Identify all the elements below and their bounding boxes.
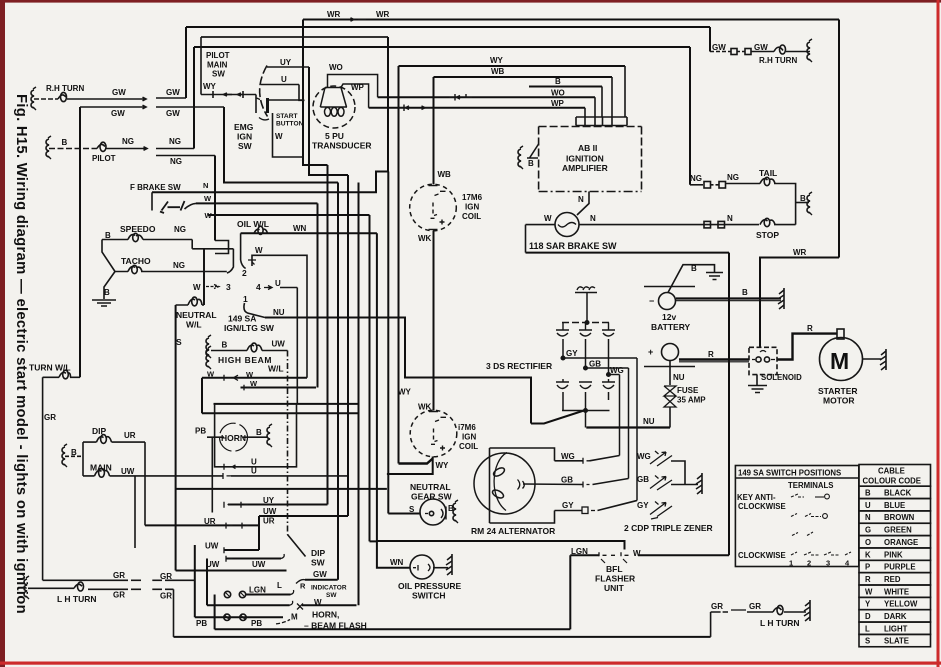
wire GW right segment row1 [156,97,186,99]
svg-text:FLASHER: FLASHER [595,574,635,584]
rectifier curl ground [575,287,597,293]
wire NU fuse bottom row [586,426,670,428]
wire NG to tail lamp [726,183,761,185]
switch position row3 [792,532,813,536]
svg-text:2 CDP TRIPLE ZENER: 2 CDP TRIPLE ZENER [624,523,713,533]
svg-text:PINK: PINK [884,550,903,559]
svg-text:HORN,: HORN, [312,610,339,620]
svg-text:O: O [865,538,871,547]
svg-text:WR: WR [376,10,390,19]
contacts UW row2 [224,547,231,553]
wire B to slash ground [778,288,784,309]
svg-text:NU: NU [673,373,685,382]
svg-text:BROWN: BROWN [884,513,915,522]
wire starter to ground [863,358,882,360]
solenoid bottom ground [756,375,758,385]
wire vertical x525.5 [525,225,527,253]
blade terminal 2 [241,260,246,269]
svg-text:B: B [691,264,697,273]
svg-text:5 PU: 5 PU [325,131,344,141]
wire vertical x194.8 PB [194,545,196,617]
svg-text:U: U [251,467,257,476]
wire vertical x259 UW step [258,516,260,550]
svg-text:GR: GR [160,572,172,581]
wire GB common to ground [671,484,698,486]
contact WG [583,458,590,464]
svg-text:D: D [865,612,871,621]
svg-text:WY: WY [398,388,412,397]
svg-text:NG: NG [690,174,702,183]
rectifier top bus [562,322,610,324]
svg-text:CLOCKWISE: CLOCKWISE [738,551,786,560]
lamp OIL W/L [254,229,268,233]
svg-text:OIL W/L: OIL W/L [237,219,269,229]
f brake sw frame [151,192,153,210]
wire vertical x637 GY [636,358,638,501]
connector pair N stop [704,221,711,228]
wire vertical x287.5 dip feed [287,351,289,535]
svg-text:PILOT: PILOT [92,154,116,163]
alternator bracket bottom [490,511,555,524]
dip sw blade [288,535,306,557]
wire WB y77 [434,76,613,78]
svg-text:GB: GB [561,476,573,485]
lamp MAIN [95,471,110,476]
wire GW dashed [710,51,731,53]
wire GR to lamp [747,611,773,613]
switch position row2 [791,514,821,517]
wire start row y100 [268,99,304,101]
wire solenoid to starter [777,334,837,360]
svg-text:RED: RED [884,575,901,584]
svg-text:+: + [648,347,653,357]
svg-text:GREEN: GREEN [884,526,912,535]
arc M horn flash [276,620,290,624]
wire row y248.8 [192,248,233,250]
wire vertical x338 bundle [337,183,339,580]
wire MAIN row [83,475,135,477]
wire UW row y516 [259,515,348,517]
wire WG to common [671,461,685,485]
coil1 internals [429,186,446,230]
alternator bracket left [489,448,491,523]
coil2 internals [429,412,446,451]
brake pressure switch circle [555,213,579,237]
wire PB row y617.3 [195,616,283,618]
svg-text:SPEEDO: SPEEDO [120,224,156,234]
battery minus circle [659,293,676,310]
ground oil pressure [446,554,452,575]
colour code rows text [865,489,918,646]
svg-text:COLOUR CODE: COLOUR CODE [863,477,921,486]
wire vertical x710.6 [710,612,712,637]
svg-text:G: G [865,526,871,535]
wire vertical x135 UW down [134,476,136,548]
svg-text:R.H TURN: R.H TURN [46,84,84,93]
svg-text:W: W [544,214,552,223]
blade terminal 1 [244,303,265,318]
svg-text:WG: WG [561,452,575,461]
wire vertical x358.5 bundle [358,183,360,606]
connector pair GW [731,49,737,55]
wire 118 SAR bottom bus [526,252,730,254]
wire W terminal 2 [252,255,307,377]
wire top bus y27 [186,26,710,28]
svg-text:N: N [578,195,584,204]
svg-text:UNIT: UNIT [604,583,625,593]
lamp TURN W/L [59,372,71,377]
wire dashed B to pilot lamp [49,148,97,150]
contacts PB circles [224,614,230,620]
B branch + ground [796,202,809,204]
svg-text:TURN W/L: TURN W/L [29,363,71,373]
wire neutral wl row [176,304,204,306]
svg-text:GR: GR [44,413,56,422]
lamp L H TURN right [773,608,782,612]
brake switch blade [160,201,185,213]
svg-text:WN: WN [293,224,307,233]
svg-text:WR: WR [327,10,341,19]
lamp LH TURN [74,584,82,588]
wire vertical x202 [201,378,203,414]
wire UY top corner [309,67,348,175]
rectifier cup row2 col2 [579,382,592,389]
svg-text:NU: NU [643,417,655,426]
svg-text:WK: WK [418,234,432,243]
svg-text:SW: SW [238,141,253,151]
wire vertical x204 to neutral lamp [203,249,205,305]
wire WO y97.3 [378,96,595,98]
wire GW indicator row [305,579,338,581]
svg-text:U: U [251,458,257,467]
rectifier column 3 [602,323,615,337]
zener blades GY [650,502,672,520]
svg-text:STOP: STOP [756,230,779,240]
wire GB out [586,367,629,369]
svg-text:GB: GB [637,475,649,484]
contacts U row upper [224,464,236,470]
wire vertical x42.6 [42,377,44,580]
svg-text:GW: GW [313,570,327,579]
svg-text:NU: NU [273,308,285,317]
svg-text:GR: GR [113,591,125,600]
svg-text:F BRAKE SW: F BRAKE SW [130,183,181,192]
svg-text:TRANSDUCER: TRANSDUCER [312,141,372,151]
wire turn wl row [43,376,80,378]
svg-text:B: B [105,231,111,240]
svg-text:AB II: AB II [578,143,597,153]
svg-text:UW: UW [272,340,286,349]
svg-text:WG: WG [637,452,651,461]
ground neutral gear [453,500,458,523]
colour table rows [859,486,931,498]
contacts W row1 [224,375,238,381]
svg-text:SW: SW [311,558,326,568]
svg-text:DIP: DIP [311,548,326,558]
diagonal GB [593,479,629,485]
starter motor circle [820,338,863,381]
svg-text:GY: GY [637,501,649,510]
svg-text:SWITCH: SWITCH [412,591,446,601]
svg-text:UW: UW [263,507,277,516]
ground for pilot lamp [46,136,51,159]
wire WG row [555,460,584,462]
svg-text:1: 1 [789,559,793,568]
wire vertical x369.5 bundle [369,215,371,541]
svg-text:IGN/LTG SW: IGN/LTG SW [224,323,275,333]
hook LGN row [291,590,294,595]
wire start button down [273,113,304,157]
svg-text:WO: WO [329,63,343,72]
svg-text:3 DS RECTIFIER: 3 DS RECTIFIER [486,361,552,371]
wire vertical x710 to RH turn [709,27,711,52]
wire W flash row right [302,604,357,606]
svg-text:L: L [865,624,870,633]
wire fuse to NU row [669,407,671,428]
svg-text:EMG: EMG [234,122,254,132]
wire WP y107.7 [369,107,585,109]
wire N right row [579,224,759,226]
rectifier cup row2 col1 [556,379,569,389]
rectifier cup row2 col3 [602,379,615,389]
svg-text:35 AMP: 35 AMP [677,396,706,405]
svg-text:OIL PRESSURE: OIL PRESSURE [398,581,461,591]
svg-text:B: B [448,504,454,513]
svg-text:UW: UW [205,542,219,551]
wire NU fuse down [669,361,671,386]
pilot main sw box left [200,37,202,95]
wire dashed to RH turn lamp [34,98,58,100]
switch position row1 [791,494,851,555]
svg-text:UW: UW [252,560,266,569]
terminal2 box [215,241,229,254]
svg-text:3: 3 [826,559,830,568]
wire oil wl left corner down [240,233,242,260]
alternator circle [474,453,535,514]
svg-text:U: U [275,279,281,288]
hook W row [290,601,293,606]
connector block [576,117,627,126]
wire W2 row y211.5 [208,214,370,216]
svg-text:R: R [300,582,306,591]
svg-text:MAIN: MAIN [90,463,112,473]
wire NU diagonal to rectifier [531,410,586,424]
svg-text:S: S [176,337,182,347]
wire right vertical x839 WR [838,20,840,258]
svg-text:N: N [727,214,733,223]
lamp STOP [760,220,775,225]
svg-text:149 SA: 149 SA [228,314,256,324]
diagonal GY [598,501,638,511]
svg-text:MOTOR: MOTOR [823,396,854,406]
wire WK vertical coil1-coil2 [433,231,435,411]
svg-text:WO: WO [551,89,565,98]
blade W flash [297,604,303,610]
wire WN jog to oil pressure switch [370,541,411,567]
connector pair NG [704,182,711,189]
wire NU row from ign sw [265,318,531,424]
wire W flasher row to x729.7 [638,554,729,556]
svg-text:N: N [203,181,208,190]
svg-text:L: L [277,581,282,590]
svg-text:GW: GW [111,109,125,118]
svg-text:NG: NG [727,173,739,182]
wire pilot NG w/ arrow [106,148,146,150]
svg-text:AMPLIFIER: AMPLIFIER [562,163,608,173]
solenoid contacts [752,359,775,361]
wire vertical x207 [206,559,208,606]
wire lamp to ground [786,51,810,53]
svg-text:M: M [830,348,849,374]
battery blade to B ground [668,265,715,293]
wire vertical x570.3 [569,555,571,629]
svg-text:M: M [291,613,298,622]
wire x388 upper from pilot box line [387,37,389,172]
wire vertical x212.3 PB horn [211,437,213,512]
wire GY out [563,357,637,359]
svg-text:W: W [193,283,201,292]
neutral gear contacts [425,513,428,515]
rectifier bottom bus [562,410,610,412]
svg-text:i7M6: i7M6 [458,423,476,432]
switch position row4 clockwise [791,552,851,555]
contacts on WO bus [449,94,472,101]
wire LH turn row [28,588,141,589]
svg-text:GW: GW [166,88,180,97]
wire GW to lamp [751,51,774,53]
svg-text:BUTTON: BUTTON [276,121,304,128]
svg-text:UY: UY [263,496,275,505]
wire vertical x729 brake row through R to flasher [728,253,730,556]
wire oil pressure to ground [434,567,448,569]
page border right red line [937,0,940,667]
alternator bracket top [490,448,555,461]
wire U corner [299,85,305,101]
svg-text:UY: UY [280,58,292,67]
svg-text:RM 24 ALTERNATOR: RM 24 ALTERNATOR [471,526,555,536]
ground tacho flat [92,300,116,306]
svg-text:WP: WP [351,83,365,92]
svg-text:N: N [590,214,596,223]
svg-text:BFL: BFL [606,564,623,574]
wire PB into horn [207,436,224,438]
svg-text:W: W [246,370,254,379]
amplifier box [539,126,642,128]
wire row y570.5 [176,570,287,572]
svg-text:KEY ANTI-: KEY ANTI- [737,493,776,502]
wires into connector [585,66,625,117]
wire WN vertical x377 bundle [376,233,378,541]
svg-text:Fig. H15. Wiring diagram — ele: Fig. H15. Wiring diagram — electric star… [13,94,29,614]
svg-text:TERMINALS: TERMINALS [788,481,833,490]
svg-text:GR: GR [160,592,172,601]
wire speedo corner down [191,240,193,249]
wire NU left vertical x531 [530,378,532,424]
battery top plate [644,286,695,288]
svg-text:GB: GB [589,360,601,369]
neutral gear sw circle [420,499,446,525]
svg-text:GW: GW [712,43,726,52]
starter terminal [837,329,844,339]
svg-text:−: − [649,296,654,306]
N wire to brake pressure switch [577,192,589,216]
svg-text:U: U [865,501,871,510]
svg-text:BLUE: BLUE [884,501,905,510]
svg-text:GR: GR [749,602,761,611]
wire GB row [523,483,583,486]
svg-text:W: W [250,379,258,388]
wire vertical x233.4 to blade [227,249,234,273]
battery plus circle [662,344,679,361]
zener blades GB [650,476,672,491]
svg-text:W: W [255,246,263,255]
wire UW row3 y558.5 [226,558,282,560]
wire GR row upper right [152,579,162,581]
wire W row2 y387.5 [241,387,317,389]
svg-text:GR: GR [113,571,125,580]
wire vertical x83 [82,442,84,476]
wire bus y629.3 [215,628,571,630]
wire speedo-tacho left link [102,240,115,272]
svg-text:IGN: IGN [462,433,476,442]
svg-text:P: P [865,563,870,572]
svg-text:B: B [800,194,806,203]
wire NG tail [690,184,703,186]
battery bottom plate [644,366,695,368]
wire U term4 [280,287,297,289]
ground flat battery top [706,273,723,280]
wire W left of circle [526,224,556,226]
contacts UY row [224,502,248,508]
wire horn box top row y403.9 [214,403,359,405]
contact ticks pilot row [213,91,243,98]
svg-text:B: B [104,288,110,297]
svg-text:CABLE: CABLE [878,467,905,476]
svg-text:BLACK: BLACK [884,489,912,498]
svg-text:B: B [222,341,228,350]
wire ground to bus [586,293,588,323]
svg-text:S: S [409,505,415,514]
wire vertical x348 bundle [347,175,349,516]
wire speedo row [102,239,192,241]
wire bus y636.9 [174,636,711,638]
svg-text:TACHO: TACHO [121,256,151,266]
wire y489 bus [176,488,387,490]
transducer dashed circle [313,86,355,128]
wire UW row2 y550 [224,549,259,551]
svg-text:LGN: LGN [571,547,588,556]
svg-text:PB: PB [196,619,207,628]
svg-text:DIP: DIP [92,426,107,436]
ground for RH turn lamp [31,87,36,110]
svg-text:WB: WB [438,170,452,179]
oil pressure switch circle [410,555,434,579]
svg-text:PILOT: PILOT [206,51,230,60]
svg-text:2: 2 [242,268,247,278]
svg-text:W: W [314,598,322,607]
wire vertical x173.5 [173,589,175,637]
svg-text:INDICATOR: INDICATOR [311,585,347,592]
svg-text:WHITE: WHITE [884,587,909,596]
svg-text:WY: WY [490,56,504,65]
svg-text:DARK: DARK [884,612,907,621]
svg-text:NG: NG [174,225,186,234]
wire vertical x215 NG2 down [214,156,216,241]
solenoid dashed box [749,347,777,374]
svg-text:WB: WB [491,67,505,76]
wire vertical x388.3 bundle [387,172,389,514]
horn dashed circle [220,423,248,451]
